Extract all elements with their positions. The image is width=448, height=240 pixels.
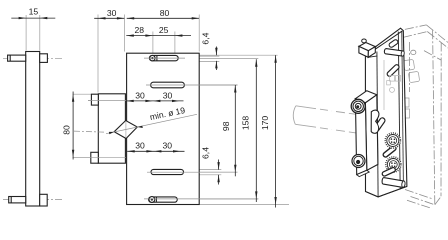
3D bottom screw cylinder — [382, 178, 405, 188]
center line side view top screw — [3, 57, 63, 59]
slot4 with screw — [149, 197, 178, 203]
svg-text:30: 30 — [163, 141, 173, 151]
dim 158 vertical — [255, 59, 257, 202]
center line slot3 — [147, 171, 238, 173]
dim 6,4 bottom — [218, 160, 220, 185]
ext line over bracket top — [88, 100, 126, 102]
device bottom dash edge — [405, 190, 433, 200]
svg-text:15: 15 — [29, 7, 39, 17]
leader min diameter 19 — [106, 114, 197, 133]
3D top screw cylinder — [384, 49, 404, 57]
slab bottom face edge — [366, 186, 407, 197]
device top depth back edge — [426, 25, 448, 43]
bracket front view body — [98, 94, 125, 163]
plate front view — [127, 53, 200, 204]
slab silhouette — [365, 28, 407, 197]
ext line plate top to 170 — [200, 54, 278, 56]
device bottom lower edge — [407, 200, 430, 208]
svg-text:98: 98 — [221, 121, 231, 131]
3D slot1 oval on slab — [388, 39, 399, 48]
dim 170 vertical — [275, 55, 277, 207]
3D clamp top screw head — [351, 99, 365, 113]
slot1 with screw — [149, 55, 178, 60]
3D top screw tip — [362, 39, 367, 43]
ext line bracket tab center top — [88, 100, 126, 102]
device left ghost vertical — [408, 42, 410, 92]
dim 80 top — [127, 17, 200, 19]
svg-text:158: 158 — [241, 116, 251, 131]
ext line 15 right — [39, 15, 41, 51]
dim chain 30 30 lower — [127, 150, 184, 152]
center line side view bottom screw — [3, 199, 63, 201]
dim 98 vertical — [234, 85, 236, 176]
plate edge through diamond — [125, 121, 127, 138]
3D clamp jaw notch — [371, 110, 379, 133]
bracket top tab — [91, 94, 98, 105]
side view bottom clamp block — [40, 194, 48, 206]
ext line slot3 top to 6,4 — [185, 169, 222, 171]
svg-text:80: 80 — [160, 8, 170, 18]
ext line 80 bracket top — [73, 93, 96, 95]
center line slot1 — [144, 57, 185, 59]
device bottom front edge — [411, 197, 436, 205]
ext line 15 left — [25, 15, 27, 51]
svg-text:30: 30 — [107, 8, 117, 18]
ext line 30 top right — [123, 15, 125, 52]
svg-text:28: 28 — [135, 25, 145, 35]
svg-text:6,4: 6,4 — [200, 147, 210, 159]
center line slot2 — [146, 84, 238, 86]
ext line slot4 center to 158 — [144, 198, 258, 200]
svg-text:6,4: 6,4 — [200, 32, 210, 44]
ext line 25 right — [174, 32, 176, 57]
slab front face left edge — [377, 52, 378, 197]
svg-text:30: 30 — [135, 141, 145, 151]
ext line slot1 top to 6,4 — [180, 55, 219, 57]
bracket bottom tab — [91, 152, 99, 163]
dim 30 top — [94, 17, 124, 19]
svg-text:25: 25 — [159, 25, 169, 35]
3D top screw cylinder end cap — [401, 51, 405, 57]
svg-text:30: 30 — [163, 90, 173, 100]
ext line plate bottom to 170 — [199, 204, 289, 206]
ext line slot3 center to 98 — [147, 171, 238, 173]
device face detail rects — [403, 59, 420, 118]
dim chain 30 30 middle — [126, 100, 183, 102]
3D clamp bottom screw — [352, 155, 365, 168]
dim 25 (outside arrow right) — [153, 35, 191, 37]
device bezel slant edge — [424, 51, 441, 60]
side view top screw pin — [8, 55, 26, 61]
device right back vertical — [433, 30, 435, 204]
3D device ghost box — [403, 25, 448, 208]
ext line 30 top left — [97, 15, 99, 93]
dim 15 — [11, 17, 55, 19]
ext line 80 bracket bottom — [73, 156, 127, 158]
ghost details on device face — [384, 60, 401, 110]
slab top back edge — [375, 31, 403, 50]
extension lines group (gray thin) — [26, 15, 289, 205]
3D slot3 on slab — [373, 117, 386, 132]
ext line slot3 bottom to 6,4 — [185, 174, 222, 176]
ext line 80 right / plate edge extension — [198, 15, 200, 52]
3D slot between connectors — [382, 145, 397, 158]
ext line over bracket bottom — [73, 156, 127, 158]
side view plate bar — [8, 52, 48, 207]
slab front face right edge — [398, 32, 400, 189]
device bottom right edge — [435, 197, 441, 205]
ext line chain right vertical — [180, 88, 182, 169]
ext line slot2 center to 98 — [146, 84, 238, 86]
device top screw hole — [411, 50, 416, 54]
3D clamp column — [355, 91, 378, 177]
3D slot2 on slab — [386, 64, 400, 77]
side view bottom screw pin — [9, 197, 26, 203]
device front bezel vertical — [440, 43, 442, 197]
center line slot4 — [144, 198, 258, 200]
ext line chain mid vertical — [152, 62, 154, 197]
ext line slot1 center to 158 — [183, 58, 258, 60]
ext line slot1 bottom to 6,4 — [180, 61, 219, 63]
3D clamp top tab box — [359, 43, 375, 58]
diamond clamp opening — [114, 121, 137, 139]
3D tube phantom — [293, 106, 356, 133]
slot3 — [151, 169, 184, 174]
3D bottom slot — [382, 167, 397, 177]
dim 80 left vertical — [72, 92, 74, 160]
slot2 — [151, 82, 185, 88]
side view top clamp block — [40, 54, 48, 63]
svg-text:170: 170 — [260, 116, 270, 131]
center line clamp axis left — [74, 131, 106, 132]
dim 28 — [126, 35, 153, 37]
device top back edge — [405, 25, 427, 30]
slab inner right edge — [402, 31, 404, 187]
dim 6,4 top — [215, 47, 217, 71]
3D connector lower — [386, 157, 401, 172]
ext line 28 mid — [152, 32, 154, 57]
3D connector upper — [385, 133, 400, 148]
device top front edge — [403, 32, 427, 38]
svg-text:80: 80 — [62, 125, 72, 135]
device top depth front edge — [427, 32, 448, 49]
3D slab plate — [365, 28, 407, 197]
svg-text:30: 30 — [135, 90, 145, 100]
